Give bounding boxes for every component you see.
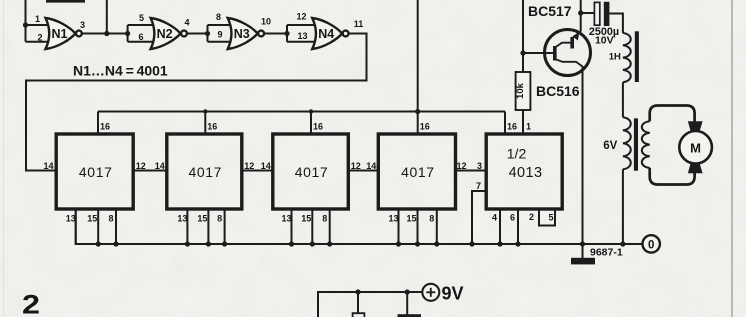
node N4 input junction: [284, 31, 289, 36]
svg-text:M: M: [690, 140, 701, 155]
svg-text:10: 10: [261, 17, 271, 27]
svg-text:2: 2: [22, 290, 40, 317]
svg-text:N2: N2: [157, 27, 173, 41]
svg-text:N1…N4 = 4001: N1…N4 = 4001: [73, 63, 168, 79]
wire top node: [581, 12, 595, 14]
svg-text:15: 15: [197, 214, 207, 224]
page edge line right: [731, 0, 733, 317]
terminal 0: [643, 235, 660, 252]
svg-text:13: 13: [388, 214, 398, 224]
transformer secondary winding: [642, 121, 650, 168]
wire N3 output: [264, 33, 287, 35]
svg-text:8: 8: [216, 12, 221, 22]
svg-text:N3: N3: [234, 27, 250, 41]
svg-text:3: 3: [477, 161, 482, 171]
wire base to transistor: [523, 52, 554, 54]
wire from cropped RC network to N1 input: [25, 0, 27, 25]
svg-text:BC517: BC517: [528, 3, 572, 19]
svg-text:12: 12: [136, 161, 146, 171]
svg-text:14: 14: [261, 161, 271, 171]
svg-text:16: 16: [420, 122, 430, 132]
svg-text:9: 9: [217, 30, 222, 40]
core bar of L1: [635, 31, 639, 82]
wire 4013 pin4 stub: [499, 209, 501, 244]
wire 9V supply rail: [318, 292, 422, 317]
svg-text:5: 5: [139, 13, 144, 23]
inductor L1 1H: [623, 33, 631, 82]
wire 4013 pin1 stub: [522, 110, 524, 134]
node N3 input junction: [205, 31, 210, 36]
svg-text:10V: 10V: [595, 35, 614, 47]
svg-text:13: 13: [281, 214, 291, 224]
IC 4017 counter #2: [167, 134, 242, 209]
wire cap to inductor: [609, 14, 623, 34]
wire 4013 pin7 to ground bus: [472, 191, 486, 244]
svg-text:12: 12: [244, 161, 254, 171]
node bus pin15 4017#2: [206, 241, 211, 246]
svg-text:7: 7: [476, 181, 481, 191]
IC 4017 counter #4: [378, 134, 455, 209]
capacitor C1 2500u 10V: [594, 2, 599, 25]
svg-text:8: 8: [217, 214, 222, 224]
svg-text:13: 13: [66, 214, 76, 224]
svg-text:0: 0: [648, 239, 654, 251]
node N1 input junction: [23, 22, 28, 27]
svg-text:4017: 4017: [295, 164, 329, 180]
svg-text:2: 2: [529, 212, 534, 222]
node bus pin6 4013: [515, 241, 520, 246]
svg-text:4: 4: [184, 18, 189, 28]
node N2 input junction: [125, 31, 130, 36]
IC 4017 counter #1: [56, 134, 133, 209]
NOR gate N1 (pins 1,2 to 3): [26, 14, 86, 49]
svg-text:9687-1: 9687-1: [590, 246, 623, 258]
terminal +9V: [422, 284, 439, 301]
node bus pin15 4017#1: [96, 241, 101, 246]
node bus pin4 4013: [497, 241, 502, 246]
wire 4013 pin6 stub: [517, 209, 519, 244]
wire 4017#1 pin12 to 4017#2 pin14: [133, 170, 167, 172]
wire 4017#3 pin12 to 4017#4 pin14: [348, 170, 378, 172]
capacitor plate (cropped at bottom): [398, 314, 422, 317]
wire base node from top edge: [522, 0, 524, 53]
svg-text:13: 13: [177, 214, 187, 224]
transformer primary 6V: [623, 117, 631, 169]
resistor (cropped at top edge): [46, 0, 85, 3]
wire 4013 pin16 stub: [504, 112, 506, 135]
node bus pin7 4013: [469, 241, 474, 246]
node collector/cap junction: [578, 10, 583, 15]
svg-text:N1: N1: [52, 27, 68, 41]
wire collector up to supply node: [580, 0, 582, 31]
NOR gate N4 (pins 12,13 to 11): [287, 12, 363, 50]
wire 4017#2 pin12 to 4017#3 pin14: [242, 170, 273, 172]
svg-text:14: 14: [155, 161, 165, 171]
svg-text:8: 8: [429, 214, 434, 224]
svg-text:12: 12: [351, 161, 361, 171]
svg-text:2: 2: [37, 33, 42, 43]
node bus junction b2: [203, 109, 207, 113]
svg-text:4: 4: [492, 213, 497, 223]
node supply junction: [415, 109, 420, 114]
wire motor loop: [650, 106, 695, 122]
ground: [582, 244, 584, 258]
svg-text:16: 16: [100, 122, 110, 132]
transistor Q1 BC517/BC516 darlington: [545, 30, 591, 76]
wire ground bus: [76, 209, 643, 244]
svg-text:6: 6: [138, 32, 143, 42]
node 9V rail junction 1: [355, 289, 360, 294]
node bus pin8 4017#3: [327, 241, 332, 246]
node bus pin15 4017#4: [415, 241, 420, 246]
svg-text:16: 16: [207, 122, 217, 132]
svg-text:4017: 4017: [189, 164, 223, 180]
wire N2 output: [187, 33, 207, 35]
svg-text:13: 13: [297, 31, 307, 41]
svg-text:12: 12: [296, 12, 306, 22]
wire N1 output: [82, 33, 127, 35]
svg-text:BC516: BC516: [536, 83, 580, 99]
svg-text:1/2: 1/2: [507, 146, 527, 162]
node bus pin13 4017#2: [185, 241, 190, 246]
svg-text:14: 14: [43, 161, 53, 171]
svg-text:4017: 4017: [401, 164, 435, 180]
svg-text:10k: 10k: [515, 82, 526, 99]
wire 4013 pin2 to pin5 link: [539, 209, 555, 226]
svg-text:4013: 4013: [509, 165, 543, 181]
IC 4017 counter #3: [273, 134, 349, 209]
node bus pin15 4017#3: [310, 241, 315, 246]
wire to cropped capacitor: [406, 292, 408, 315]
svg-text:1: 1: [526, 122, 531, 132]
wire emitter down to ground bus: [582, 66, 584, 244]
node coil-ground junction: [620, 241, 625, 246]
svg-text:16: 16: [313, 122, 323, 132]
node N1 output / feedback junction: [104, 31, 109, 36]
wire from cropped RC network to N1 output node: [106, 0, 108, 34]
svg-text:8: 8: [108, 214, 113, 224]
svg-text:3: 3: [80, 20, 85, 30]
page edge line left: [3, 0, 5, 317]
wire N4 output feedback to 4017 pin 14: [26, 34, 367, 171]
resistor (cropped at bottom): [353, 313, 365, 317]
svg-text:12: 12: [456, 161, 466, 171]
wire between coils: [622, 82, 624, 117]
node bus pin13 4017#3: [289, 241, 294, 246]
svg-text:8: 8: [322, 214, 327, 224]
svg-text:11: 11: [354, 19, 364, 29]
node bus pin8 4017#4: [434, 241, 439, 246]
IC 1/2 4013 flip-flop: [486, 134, 562, 209]
svg-text:16: 16: [507, 122, 517, 132]
svg-text:14: 14: [366, 161, 376, 171]
node bus pin8 4017#1: [113, 241, 118, 246]
node 9V rail junction 2: [405, 289, 410, 294]
wire to cropped resistor: [357, 292, 359, 313]
svg-text:1H: 1H: [609, 52, 621, 63]
motor M: [688, 121, 703, 131]
svg-text:15: 15: [87, 214, 97, 224]
svg-text:6V: 6V: [603, 140, 617, 152]
svg-text:N4: N4: [318, 27, 334, 41]
node bus pin8 4017#2: [222, 241, 227, 246]
node emitter-ground junction: [580, 241, 585, 246]
svg-text:4017: 4017: [79, 164, 113, 180]
svg-text:9V: 9V: [442, 283, 464, 303]
wire coil to ground bus: [622, 169, 624, 244]
resistor 10k: [522, 53, 524, 72]
svg-text:5: 5: [548, 213, 553, 223]
svg-text:1: 1: [35, 14, 40, 24]
core bar of transformer: [634, 118, 638, 170]
node bus junction b3: [309, 109, 313, 113]
node base junction: [520, 50, 525, 55]
node bus pin13 4017#4: [396, 241, 401, 246]
NOR gate N3 (pins 8,9 to 10): [208, 12, 272, 49]
wire +supply from top edge: [417, 0, 419, 112]
wire 4017#4 pin12 to 4013 pin3: [456, 170, 487, 172]
svg-text:15: 15: [301, 214, 311, 224]
NOR gate N2 (pins 5,6 to 4): [128, 13, 190, 49]
svg-text:6: 6: [510, 213, 515, 223]
wire pin-16 supply bus: [98, 111, 505, 113]
svg-text:15: 15: [406, 214, 416, 224]
